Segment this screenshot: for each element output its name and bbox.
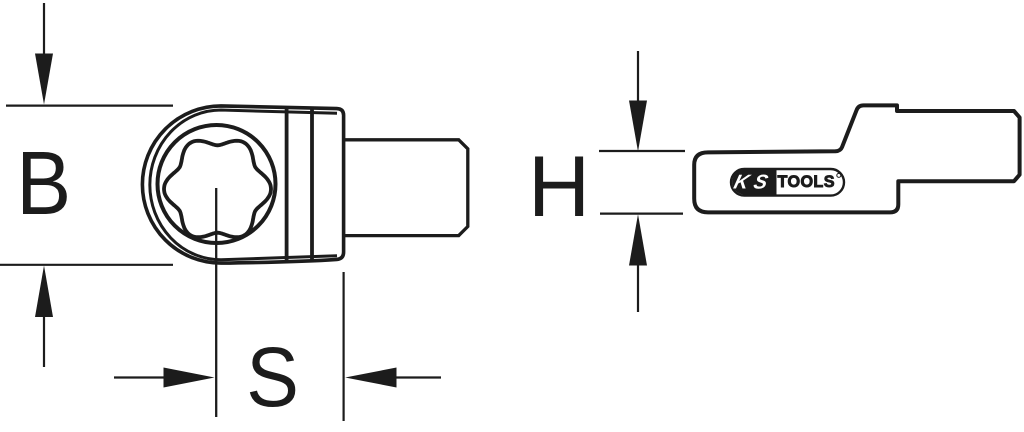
dimension B arrowhead bottom <box>35 266 53 318</box>
KS Tools logo <box>731 169 844 196</box>
side view outline <box>694 105 1019 212</box>
logo black left half <box>732 170 776 195</box>
dimension H top arrowhead <box>629 101 647 152</box>
label S <box>246 331 299 425</box>
dimension H arrow top line <box>637 51 639 102</box>
dimension B bottom extension line <box>0 264 173 266</box>
dimension B arrowhead top <box>35 54 53 105</box>
dimension S left arrowhead <box>164 368 215 388</box>
centerline through hole <box>215 188 217 417</box>
logo KS script <box>732 172 771 194</box>
svg-text:H: H <box>528 139 590 235</box>
body vertical line 1 <box>285 108 289 261</box>
dimension B arrow top line <box>43 3 45 58</box>
svg-text:B: B <box>16 134 71 234</box>
square drive tang (front view) <box>345 140 468 236</box>
dimension S right arrowhead <box>345 368 396 388</box>
wrench head outer contour <box>142 106 343 263</box>
body vertical line 2 <box>310 108 314 261</box>
dimension H bottom line <box>600 213 683 215</box>
dimension B top extension line <box>6 104 173 106</box>
hole circle <box>158 125 276 243</box>
dimension S left line <box>114 376 165 378</box>
svg-text:TOOLS: TOOLS <box>778 173 835 191</box>
dimension B arrow bottom line <box>43 316 45 367</box>
logo pill outline <box>731 169 844 196</box>
dimension H arrow bottom line <box>637 265 639 313</box>
right extension line of head <box>343 272 345 421</box>
torx star profile <box>164 141 271 237</box>
label B <box>16 134 71 234</box>
dimension H top line <box>599 150 685 152</box>
dimension H bottom arrowhead <box>629 214 647 265</box>
dimension S right line <box>395 376 441 378</box>
svg-text:S: S <box>246 331 299 425</box>
wrench head inner contour <box>150 110 337 260</box>
logo registered mark <box>837 173 841 177</box>
